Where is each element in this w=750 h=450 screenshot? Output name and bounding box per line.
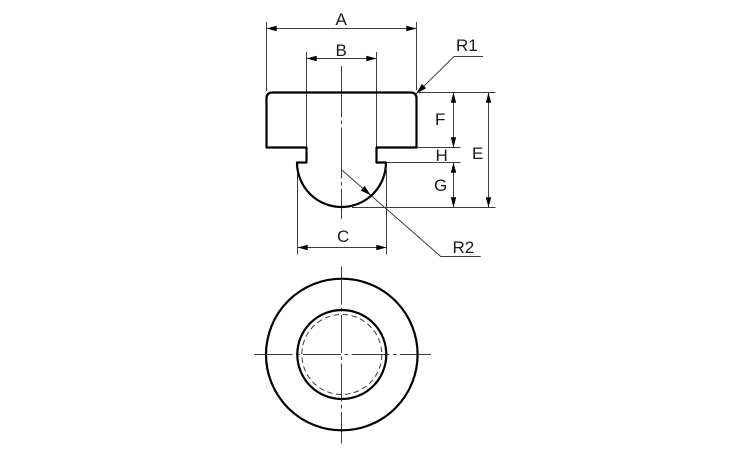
- label H: [436, 146, 448, 165]
- arrowhead B left: [307, 56, 317, 61]
- svg-text:A: A: [336, 10, 348, 29]
- extension line bottom right for G and E: [352, 207, 496, 209]
- label E: [472, 144, 483, 163]
- top view inner circle: [297, 310, 386, 399]
- arrowhead E bottom: [486, 197, 491, 207]
- label F: [435, 110, 445, 129]
- dimension A dim line: [267, 28, 416, 30]
- arrowhead F top: [451, 93, 456, 103]
- svg-text:E: E: [472, 144, 483, 163]
- dimension C dim line: [298, 247, 386, 249]
- svg-text:G: G: [434, 176, 447, 195]
- dimension B extension line left: [306, 52, 308, 148]
- leader line R2: [342, 170, 481, 257]
- centerline horizontal bottom view: [255, 354, 432, 356]
- arrowhead A right: [406, 26, 416, 31]
- extension line top right for E and F: [419, 92, 496, 94]
- label A: [336, 10, 348, 29]
- dimension F dim line: [453, 93, 455, 147]
- dimension C extension line left: [297, 174, 299, 255]
- hidden circle dashed inner bore: [302, 315, 382, 395]
- dimension B extension line right: [376, 52, 378, 148]
- dimension A extension line left: [266, 22, 268, 91]
- dimension G dim line: [453, 163, 455, 207]
- svg-text:R2: R2: [453, 238, 475, 257]
- svg-text:F: F: [435, 110, 445, 129]
- label B: [336, 41, 347, 60]
- svg-text:C: C: [337, 227, 349, 246]
- centerline vertical bottom view: [341, 267, 343, 444]
- centerline vertical cross-section: [341, 66, 343, 219]
- svg-text:H: H: [436, 146, 448, 165]
- label G: [434, 176, 447, 195]
- arrowhead C right: [376, 245, 386, 250]
- arrowhead F bottom: [451, 137, 456, 147]
- extension line step right for H and G: [387, 162, 461, 164]
- grommet cross-section outline: [267, 93, 417, 208]
- arrowhead G top: [451, 163, 456, 173]
- svg-text:B: B: [336, 41, 347, 60]
- dimension E dim line: [488, 93, 490, 207]
- arrowhead R1 leader: [416, 84, 426, 94]
- dimension A extension line right: [416, 22, 418, 90]
- dimension C extension line right: [386, 170, 388, 255]
- label R1: [456, 36, 478, 55]
- dimension B dim line: [307, 58, 376, 60]
- arrowhead B right: [366, 56, 376, 61]
- leader line R1: [416, 57, 483, 94]
- extension line flange bottom right for F and H: [418, 147, 461, 149]
- arrowhead C left: [298, 245, 308, 250]
- arrowhead R2 leader: [361, 186, 371, 196]
- svg-text:R1: R1: [456, 36, 478, 55]
- arrowhead G bottom: [451, 197, 456, 207]
- arrowhead E top: [486, 93, 491, 103]
- label C: [337, 227, 349, 246]
- label R2: [453, 238, 475, 257]
- top view outer circle: [266, 279, 418, 431]
- arrowhead A left: [267, 26, 277, 31]
